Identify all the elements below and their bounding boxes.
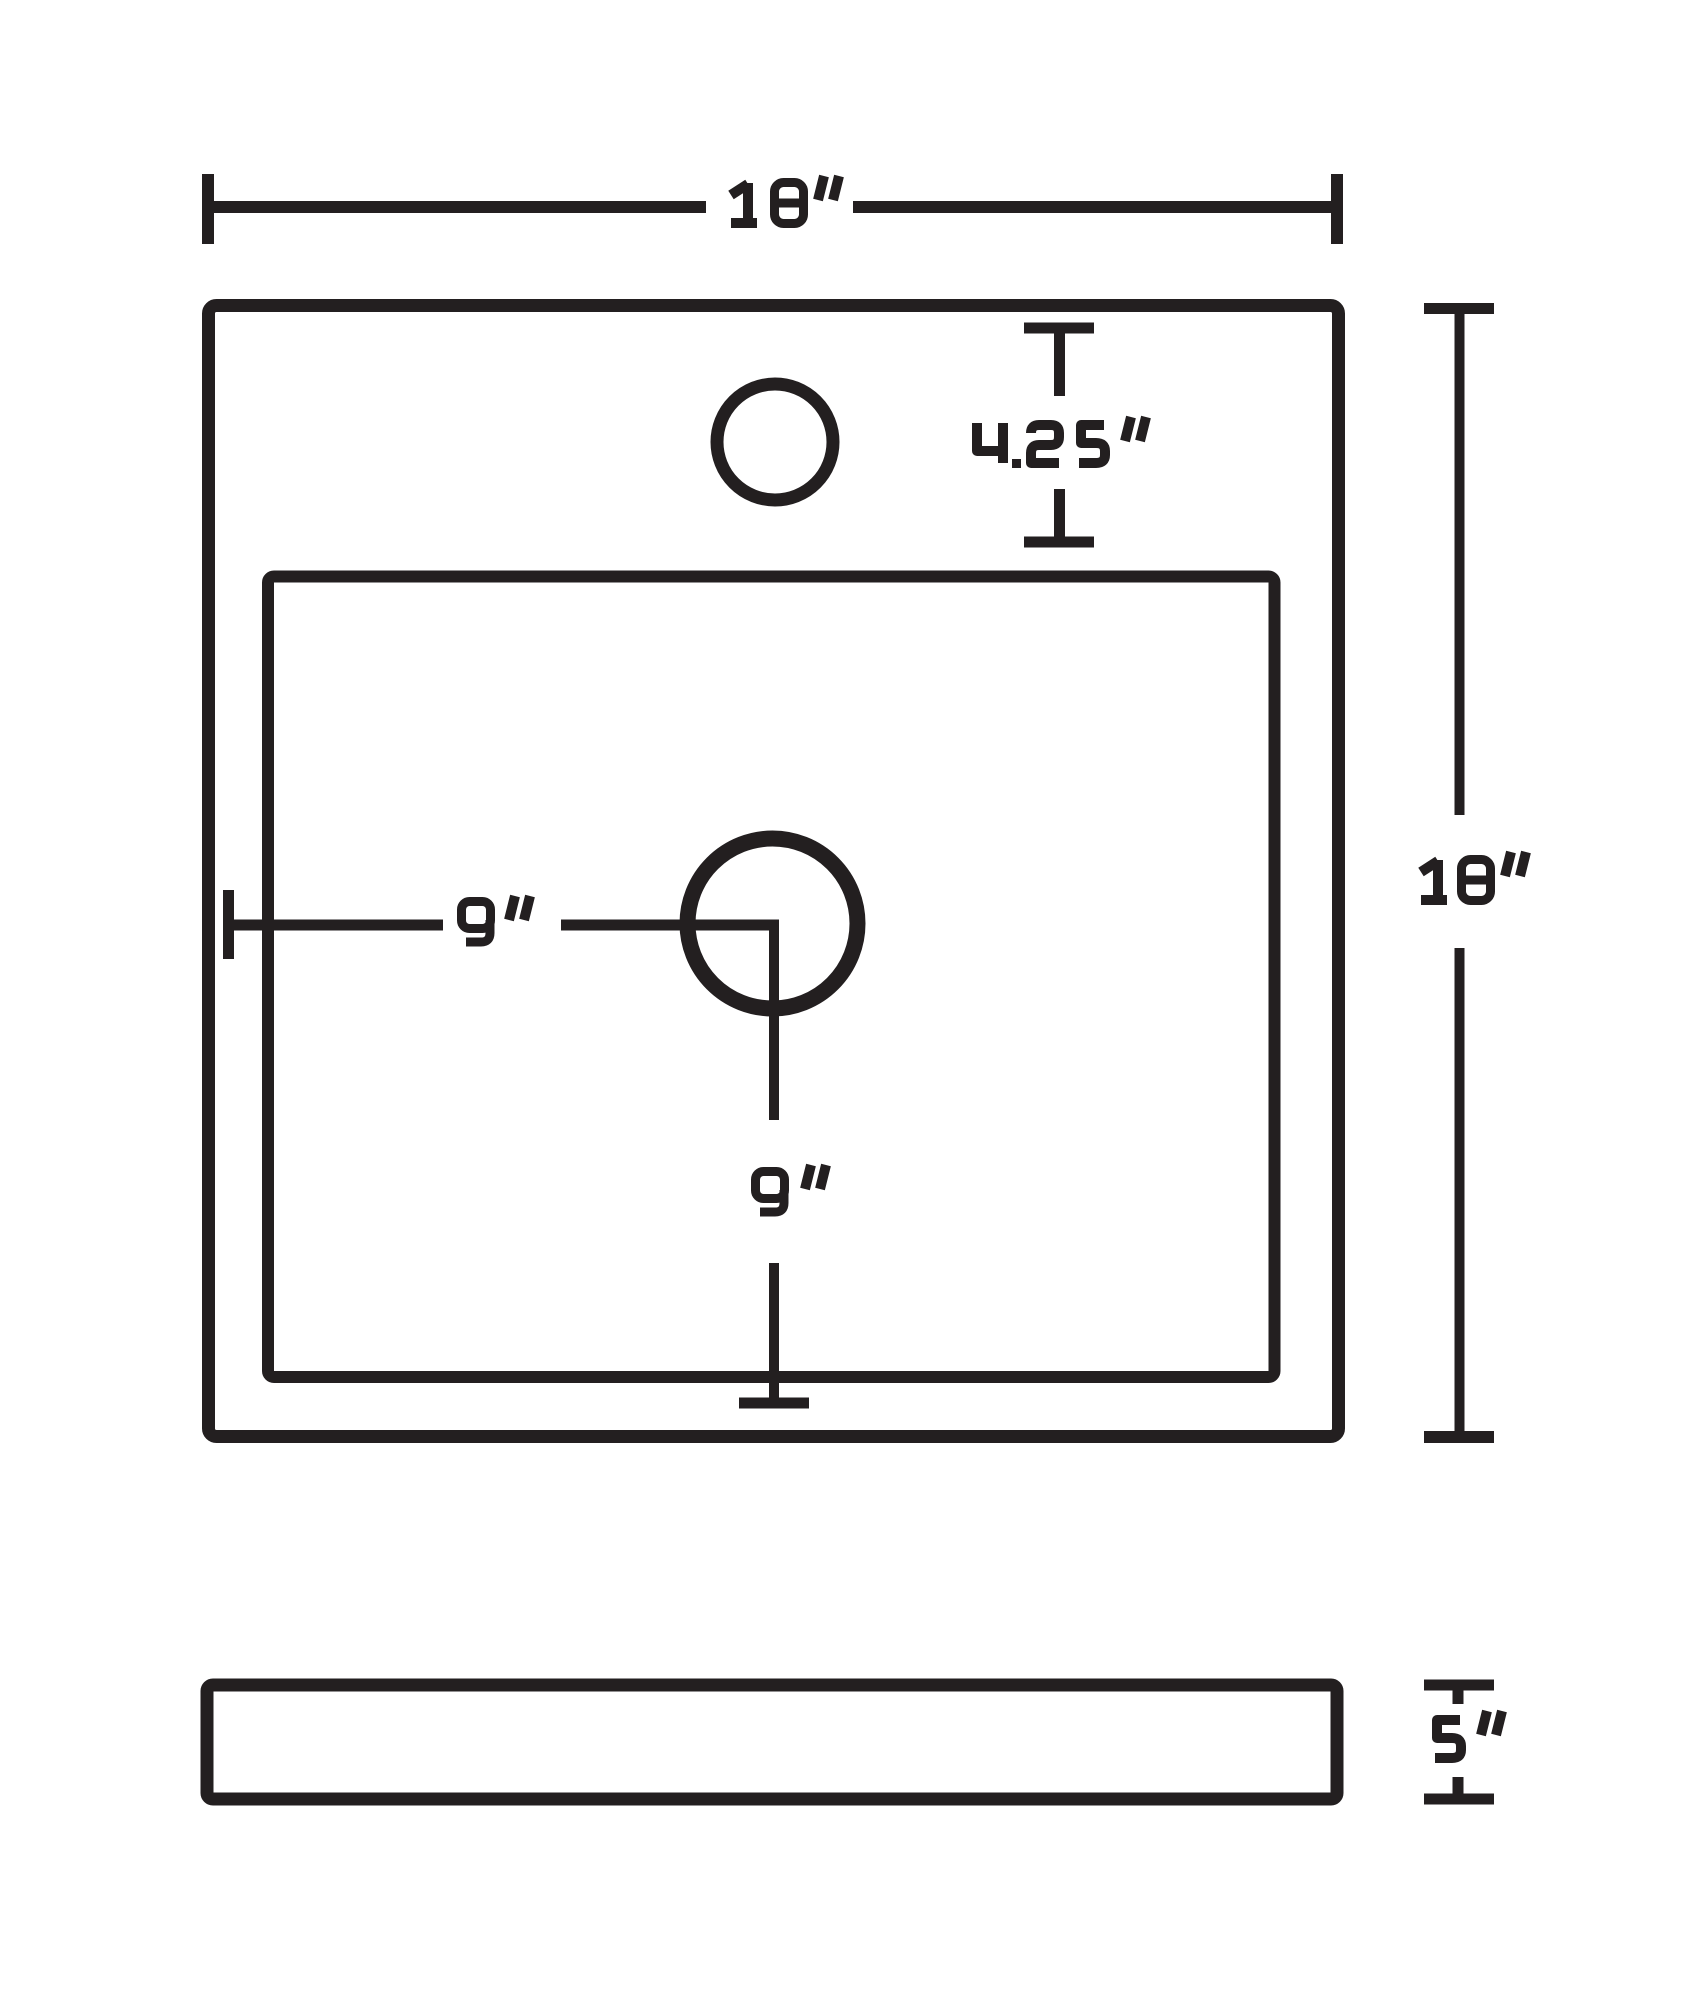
outer sink rim square top view — [209, 306, 1339, 1437]
node label 5 inch text — [1435, 1711, 1502, 1758]
node label 18 inch right height text — [1421, 852, 1526, 901]
wire 4.25 inch dimension : bottom stem — [1054, 489, 1065, 542]
wire vertical 9 inch dimension : bottom tick bar — [739, 1398, 809, 1409]
wire top dimension line 18 inch : left tick — [202, 174, 214, 244]
wire right height dimension 18 inch : top tick bar — [1424, 303, 1494, 314]
wire right height dimension 18 inch : lower segment — [1455, 948, 1465, 1437]
wire horizontal 9 inch dimension : right segment to drain center — [561, 920, 779, 931]
wire top dimension line 18 inch : left segment — [208, 201, 706, 213]
wire right height dimension 18 inch : upper segment — [1455, 309, 1465, 816]
faucet hole circle — [717, 384, 833, 500]
wire right height dimension 18 inch : bottom tick bar — [1424, 1431, 1494, 1443]
wire top dimension line 18 inch : right tick — [1331, 174, 1343, 244]
wire 5 inch dimension : top stem — [1453, 1685, 1464, 1704]
wire 5 inch dimension : top tick bar — [1424, 1680, 1494, 1691]
node label 18 inch top width text — [731, 176, 839, 224]
wire 4.25 inch dimension : bottom tick bar — [1024, 537, 1094, 548]
wire vertical 9 inch dimension : lower segment — [769, 1263, 779, 1403]
node label horizontal 9 inch text — [462, 896, 531, 942]
wire horizontal 9 inch dimension : left tick — [223, 890, 234, 959]
wire top dimension line 18 inch : right segment — [853, 201, 1337, 213]
wire 5 inch dimension : bottom stem — [1453, 1777, 1464, 1799]
node label 4.25 inch text — [977, 417, 1146, 468]
wire vertical 9 inch dimension : upper segment from drain center — [769, 920, 779, 1120]
wire 4.25 inch dimension : top stem — [1054, 328, 1065, 396]
inner basin rectangle top view — [268, 577, 1275, 1378]
side view sink slab rectangle — [207, 1685, 1337, 1799]
drain hole circle — [688, 839, 858, 1009]
wire horizontal 9 inch dimension : left segment — [229, 920, 444, 931]
wire 5 inch dimension : bottom tick bar — [1424, 1794, 1494, 1805]
wire 4.25 inch dimension : top tick bar — [1024, 323, 1094, 334]
node label vertical 9 inch text — [756, 1165, 827, 1212]
